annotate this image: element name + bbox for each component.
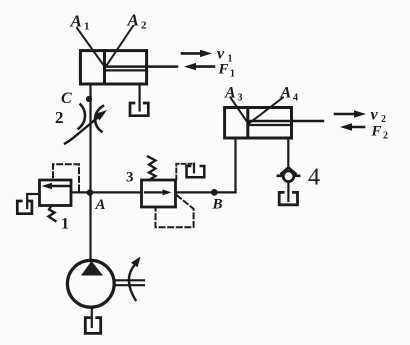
- arrow v1: [182, 50, 212, 57]
- svg-text:2: 2: [141, 20, 147, 32]
- svg-text:2: 2: [55, 108, 64, 127]
- wire corner up to cylinder 2 left port: [234, 138, 236, 192]
- arrow F2: [340, 123, 364, 130]
- reducing valve 3 pilot dashed loop: [156, 196, 194, 228]
- wire node C to node A (through throttle): [89, 99, 91, 192]
- cylinder 1 rod upper line: [105, 65, 178, 68]
- svg-text:A: A: [70, 12, 82, 31]
- svg-text:1: 1: [230, 69, 235, 80]
- tank under pump: [85, 318, 100, 334]
- node B: [211, 189, 218, 196]
- cylinder 2 piston: [246, 108, 249, 139]
- tank at relief valve: [17, 201, 32, 214]
- tank at reducing valve 3: [187, 166, 205, 177]
- wire relief valve outlet to tank: [27, 194, 39, 208]
- wire check valve 4 to tank: [287, 182, 289, 201]
- svg-text:A: A: [95, 197, 106, 213]
- svg-text:F: F: [371, 124, 382, 140]
- relief valve 1 spring: [49, 206, 56, 222]
- cylinder 2 body (A3/A4): [225, 108, 292, 139]
- pump rotation arrow: [129, 257, 141, 301]
- arrow v2: [335, 110, 366, 117]
- svg-text:B: B: [212, 197, 223, 213]
- leader line A3: [231, 98, 249, 125]
- wire cylinder1 left port to node C: [89, 84, 91, 99]
- wire pump to tank: [91, 307, 93, 327]
- svg-text:4: 4: [293, 93, 298, 104]
- wire node A to reducing valve 3: [91, 191, 142, 193]
- relief valve 1 pilot dashed line: [53, 164, 79, 190]
- cylinder 1 body (A1/A2): [80, 51, 146, 84]
- cylinder 1 piston: [103, 51, 106, 84]
- throttle valve 2 adjust arrow: [65, 110, 107, 144]
- svg-text:1: 1: [61, 216, 69, 233]
- leader line A4: [250, 98, 284, 124]
- wire cylinder1 right port to tank: [139, 84, 141, 111]
- reducing valve 3 body: [142, 180, 176, 207]
- node A: [87, 189, 94, 196]
- relief valve 1 body: [40, 180, 72, 206]
- leader line A2: [106, 26, 134, 67]
- wire node A down to pump: [89, 192, 91, 261]
- svg-text:A: A: [224, 85, 236, 102]
- reducing valve 3 drain dashed line: [176, 164, 191, 180]
- svg-text:2: 2: [383, 131, 388, 142]
- svg-text:A: A: [280, 85, 292, 102]
- check valve 4 seat: [281, 167, 295, 173]
- svg-text:F: F: [218, 62, 229, 78]
- svg-text:v: v: [371, 107, 379, 124]
- pump triangle: [81, 261, 103, 276]
- tank under cylinder 1: [130, 103, 148, 116]
- cylinder 1 rod lower line: [105, 69, 147, 71]
- throttle valve 2 arcs: [79, 105, 86, 129]
- relief valve 1 internal arrow: [42, 183, 70, 190]
- svg-text:A: A: [127, 11, 139, 30]
- wire relief valve to node A: [71, 191, 91, 193]
- svg-text:2: 2: [381, 114, 386, 125]
- reducing valve 3 spring: [148, 157, 156, 181]
- svg-text:4: 4: [308, 165, 320, 191]
- pump circle: [67, 260, 114, 307]
- cylinder 2 rod upper line: [248, 120, 323, 123]
- pump shaft: [114, 280, 144, 285]
- check valve 4 ball: [283, 171, 294, 182]
- leader line A1: [77, 28, 105, 67]
- svg-text:C: C: [61, 90, 72, 107]
- svg-text:3: 3: [126, 170, 134, 186]
- wire cylinder 2 right port to check valve 4: [287, 138, 289, 167]
- svg-text:3: 3: [238, 93, 243, 104]
- svg-text:v: v: [217, 46, 225, 63]
- node C: [86, 96, 92, 102]
- arrow F1: [184, 63, 214, 70]
- tank under check valve 4: [279, 192, 297, 204]
- reducing valve 3 drain tank inlet: [193, 164, 195, 173]
- reducing valve 3 internal arrow: [145, 189, 172, 195]
- svg-text:1: 1: [84, 21, 90, 33]
- cylinder 2 rod lower line: [248, 124, 292, 126]
- wire reducing valve 3 to corner under cylinder 2: [176, 191, 236, 193]
